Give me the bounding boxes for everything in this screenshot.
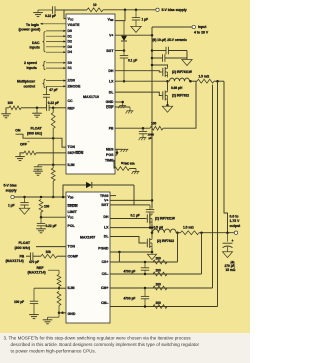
svg-text:D4: D4 — [68, 50, 73, 54]
svg-text:200: 200 — [156, 268, 162, 272]
ground 100 left (earth) — [1, 108, 11, 118]
svg-text:REF: REF — [68, 106, 76, 110]
resistor RTIME 62k — [114, 161, 135, 170]
wire DL gate drive — [115, 92, 161, 95]
junction switch node — [166, 80, 169, 83]
controller IC U2 MAX1957 body — [66, 192, 110, 323]
wire TRIG stub — [110, 195, 116, 197]
svg-text:LX: LX — [109, 80, 114, 84]
svg-text:(6) 10-μF, 25-V ceramic: (6) 10-μF, 25-V ceramic — [153, 38, 188, 42]
wire DL2 gate drive — [110, 237, 146, 244]
resistor 200 CM+ — [153, 282, 167, 290]
svg-text:DL: DL — [104, 235, 110, 239]
wire CS+ row — [110, 261, 178, 263]
junction ILIM node bottom — [58, 287, 61, 290]
capacitor 0.22uF bottom — [36, 217, 56, 233]
junction 4700pF lower top — [144, 287, 147, 290]
svg-text:SHDN: SHDN — [68, 204, 78, 208]
capacitor 100pF ILIM — [14, 288, 59, 318]
ground NEG/POS (hatch) — [117, 149, 128, 152]
svg-text:100: 100 — [8, 101, 14, 105]
svg-text:LX: LX — [104, 225, 109, 229]
caption background — [0, 333, 250, 363]
svg-text:Multiplexer: Multiplexer — [17, 80, 36, 84]
svg-text:SKP/SDN: SKP/SDN — [68, 151, 84, 155]
svg-text:(300 kHz): (300 kHz) — [27, 131, 42, 135]
svg-text:1 μF: 1 μF — [142, 18, 149, 22]
svg-text:described in this article. Boa: described in this article. Board designe… — [11, 342, 200, 347]
svg-text:1.5 mΩ: 1.5 mΩ — [199, 75, 210, 79]
svg-text:47 pF: 47 pF — [49, 88, 57, 92]
U2 left pin labels — [68, 195, 79, 316]
capacitor 1uF VDD bypass — [132, 10, 148, 22]
wire TIME pin down — [114, 160, 115, 168]
wire V+ pin IC2 — [110, 199, 152, 201]
capacitor 1uF bottom — [8, 197, 30, 214]
junction VDD tap — [124, 9, 127, 12]
svg-text:0.68 μH: 0.68 μH — [171, 86, 183, 90]
wire sense resistor to output bus — [214, 80, 224, 82]
wire Vin to Q1 drain — [152, 65, 168, 67]
svg-text:0.22 μF: 0.22 μF — [45, 14, 56, 18]
svg-text:FLOAT: FLOAT — [19, 241, 31, 245]
svg-text:output: output — [230, 224, 242, 228]
op-amp/controller IC U1 MAX1710 body — [66, 14, 115, 174]
svg-text:NEG: NEG — [106, 147, 114, 151]
resistor ILIM divider lower bottom — [57, 292, 61, 313]
svg-text:3. The MOSFETs for this step-d: 3. The MOSFETs for this step-down switch… — [4, 335, 192, 340]
ground IC2 GND — [43, 313, 59, 324]
svg-text:control: control — [24, 84, 36, 88]
node FLOAT 300kHz bottom — [15, 241, 67, 250]
wire LX pin to switch node — [115, 80, 168, 82]
svg-text:ILIM: ILIM — [68, 163, 75, 167]
capacitor 0.1uF bootstrap top — [120, 56, 137, 63]
svg-text:0.6 to: 0.6 to — [230, 214, 239, 218]
junction BST node — [123, 49, 126, 52]
resistor 10k COMP — [41, 250, 66, 258]
junction FB filter tap — [142, 127, 145, 130]
ground GND pin IC1 (hatch) — [118, 102, 126, 108]
ground output caps — [223, 252, 233, 258]
svg-text:FB: FB — [109, 126, 114, 130]
svg-text:(2) IRF7811W: (2) IRF7811W — [172, 70, 192, 74]
svg-text:ON: ON — [15, 128, 21, 132]
capacitor 470pF — [29, 252, 41, 264]
U1 right pin labels — [105, 18, 114, 163]
svg-text:15 mΩ: 15 mΩ — [226, 268, 236, 272]
svg-text:POL: POL — [68, 224, 76, 228]
ground input caps — [182, 51, 192, 66]
svg-text:(MAX1714): (MAX1714) — [6, 259, 24, 263]
svg-text:V+: V+ — [109, 33, 113, 37]
svg-text:REF: REF — [37, 266, 45, 270]
resistor 200 CM- — [153, 301, 167, 309]
junction V+ tap IC1 — [151, 34, 154, 37]
terminal input 4 to 28V — [192, 25, 209, 34]
resistor 10 ohm VCC filter — [87, 3, 103, 12]
svg-text:DL: DL — [109, 90, 115, 94]
svg-text:TIME: TIME — [105, 159, 114, 163]
junction LX node tap — [123, 80, 126, 83]
junction inductor-sense node bottom — [176, 231, 179, 234]
diode bootstrap bottom — [63, 182, 134, 197]
svg-text:S1: S1 — [68, 66, 72, 70]
capacitor 0.22uF REF in series — [37, 101, 59, 111]
svg-text:10: 10 — [93, 3, 97, 7]
svg-text:DH: DH — [103, 215, 109, 219]
wire sense bus B vertical — [217, 81, 219, 306]
svg-text:Z/S0: Z/S0 — [68, 79, 76, 83]
wire FB sense vertical from inductor node — [163, 81, 196, 128]
svg-text:CC: CC — [68, 99, 74, 103]
svg-text:CM–: CM– — [101, 301, 109, 305]
svg-text:CM+: CM+ — [101, 286, 109, 290]
junction V+ IC2 on Vin bus — [151, 199, 154, 202]
svg-text:LIMIT: LIMIT — [68, 210, 78, 214]
node REF MAX1714 — [28, 266, 60, 275]
inductor 0.68uH — [170, 78, 190, 90]
wire CM- row — [110, 306, 218, 308]
svg-text:200: 200 — [156, 282, 162, 286]
svg-text:(2) IRF7811W: (2) IRF7811W — [155, 217, 175, 221]
wire input to Vin bus — [152, 26, 192, 28]
wire DAC input arrows D0-D4 — [46, 30, 66, 54]
wire bootstrap cap to LX — [123, 58, 125, 81]
wire VCC node to resistor — [64, 9, 87, 11]
capacitor ILIM bypass — [33, 164, 66, 176]
svg-text:D0: D0 — [68, 29, 73, 33]
capacitor 4700pF lower — [124, 288, 150, 307]
wire PGND row — [110, 251, 152, 253]
svg-text:POS: POS — [106, 153, 114, 157]
junction output cap tap — [226, 231, 229, 234]
transistor Q4 (2) IRF7822 low-side bottom — [146, 238, 175, 249]
capacitor 0.1uF bootstrap bottom — [131, 205, 155, 228]
svg-text:200: 200 — [156, 256, 162, 260]
resistor 1.5 mOhm sense top — [191, 75, 215, 84]
ground OVP (hatch) — [126, 107, 134, 113]
resistor 200 CS- — [153, 268, 167, 276]
wire Q2 drain to switch node — [167, 81, 169, 90]
svg-text:FB: FB — [20, 254, 25, 258]
svg-text:S0: S0 — [68, 61, 72, 65]
node DAC inputs brace — [30, 32, 46, 52]
junction sense right — [216, 80, 219, 83]
resistor 100 FB — [150, 122, 163, 131]
svg-text:ZMODE: ZMODE — [68, 84, 81, 88]
svg-text:DH: DH — [108, 69, 114, 73]
svg-text:0.1 μF: 0.1 μF — [131, 214, 140, 218]
wire 5V bias rail — [103, 9, 156, 11]
svg-text:100: 100 — [151, 122, 157, 126]
svg-text:OVP: OVP — [106, 105, 114, 109]
inductor 0.5uH bottom — [153, 225, 177, 232]
svg-text:GND: GND — [106, 100, 114, 104]
wire 5V to VDD IC2 — [14, 196, 66, 198]
wire Q4 source to PGND row — [151, 249, 153, 253]
junction 1uF tap — [135, 9, 138, 12]
ground PGND — [147, 252, 156, 260]
caption text — [4, 335, 200, 353]
wire VDD pin to 5V rail — [115, 10, 125, 21]
resistor 200 CS+ ... note: row components — [153, 256, 167, 264]
wire DH2 gate drive — [110, 218, 146, 220]
capacitor input C-b — [152, 54, 187, 62]
node 2 speed inputs brace — [24, 61, 66, 70]
resistor 1.5 mOhm sense bottom — [181, 226, 200, 235]
capacitor output bank (4) 270uF 15mOhm — [223, 233, 236, 272]
svg-text:5-V bias: 5-V bias — [4, 184, 17, 188]
ground 1000pF (hatch) — [139, 134, 147, 140]
ground (earth) for 0.22uF VCC bypass — [33, 10, 43, 17]
svg-text:100 pF: 100 pF — [14, 300, 24, 304]
wire ILIM pin IC2 — [59, 287, 66, 289]
node To logic power good — [19, 23, 67, 32]
svg-text:to power modern high-performan: to power modern high-performance CPUs. — [11, 348, 96, 353]
wire diode to BST IC2 — [110, 185, 134, 205]
transistor Q3 (2) IRF7811W high-side bottom — [146, 213, 175, 224]
wire GND pin IC2 — [59, 312, 66, 314]
ground for 1uF — [131, 20, 141, 33]
wire Q2 source to ground — [167, 101, 169, 105]
wire sense bus A vertical — [212, 85, 214, 288]
svg-text:OFF: OFF — [20, 143, 27, 147]
svg-text:BST: BST — [106, 49, 114, 53]
svg-text:4 to 28 V: 4 to 28 V — [194, 31, 209, 35]
svg-text:CS–: CS– — [102, 272, 109, 276]
transistor Q2 (2) IRF7822 low-side — [161, 90, 189, 101]
svg-text:200: 200 — [156, 301, 162, 305]
svg-text:(2) IRF7822: (2) IRF7822 — [172, 94, 189, 98]
svg-text:supply: supply — [6, 188, 17, 192]
diode bootstrap top — [121, 21, 127, 41]
svg-text:TRIG: TRIG — [100, 194, 109, 198]
svg-text:D2: D2 — [68, 40, 73, 44]
wire FB pin to resistor — [115, 127, 150, 129]
svg-text:1 μF: 1 μF — [8, 204, 15, 208]
svg-text:To logic: To logic — [26, 23, 39, 27]
svg-text:GND: GND — [68, 312, 76, 316]
wire PGND drop to CS+ row — [118, 252, 120, 262]
wire Q3 source to switch node — [151, 224, 153, 233]
wire LX2 row — [110, 227, 152, 229]
wire NEG and POS pins joined — [115, 149, 118, 155]
capacitor 0.22uF VCC bypass — [45, 6, 56, 18]
capacitor 4700pF upper — [124, 262, 150, 274]
junction input cap 2 — [151, 57, 154, 60]
wire ground to capacitor — [38, 9, 53, 11]
wire BST pin — [115, 50, 124, 52]
node FB MAX1714 — [6, 254, 31, 263]
resistor ILIM divider vertical — [51, 108, 55, 198]
resistor ILIM divider upper bottom — [57, 270, 61, 288]
svg-text:Input: Input — [198, 25, 207, 29]
svg-text:1.5 mΩ: 1.5 mΩ — [183, 226, 194, 230]
wire OVP pin — [115, 106, 130, 108]
svg-text:VGATE: VGATE — [68, 23, 81, 27]
svg-text:1.75 V: 1.75 V — [230, 219, 241, 223]
svg-text:COMP: COMP — [68, 254, 79, 258]
svg-text:(300 kHz): (300 kHz) — [15, 246, 31, 250]
wire output bus vertical — [224, 81, 228, 233]
svg-text:pF: pF — [149, 136, 153, 140]
ground rail earth middle — [32, 108, 42, 117]
node multiplexer control brace — [17, 79, 66, 88]
svg-text:TON: TON — [68, 245, 76, 249]
svg-text:5-V bias supply: 5-V bias supply — [162, 8, 187, 12]
junction sense right bottom — [200, 231, 203, 234]
svg-text:(power good): (power good) — [19, 28, 41, 32]
svg-text:ILIM: ILIM — [68, 286, 75, 290]
svg-text:MAX1957: MAX1957 — [80, 236, 95, 240]
svg-text:10k: 10k — [46, 250, 52, 254]
svg-text:D1: D1 — [68, 34, 73, 38]
svg-text:4700 pF: 4700 pF — [124, 297, 136, 301]
capacitor input C-a — [152, 47, 187, 55]
terminal output 0.6 to 1.75V — [230, 214, 242, 234]
wire sense to output node — [199, 232, 234, 234]
svg-text:inputs: inputs — [27, 66, 37, 70]
svg-text:PGND: PGND — [98, 247, 109, 251]
svg-text:(2) IRF7822: (2) IRF7822 — [157, 239, 174, 243]
ground RTIME (hatch) — [130, 169, 140, 175]
wire CS+ riser to inductor node — [177, 233, 179, 262]
svg-text:TON: TON — [68, 145, 76, 149]
wire CS- row — [110, 273, 202, 275]
wire BST to bootstrap cap — [134, 204, 150, 206]
wire CM+ row — [110, 287, 213, 289]
svg-text:CS+: CS+ — [102, 260, 109, 264]
ground Q2 source — [162, 105, 172, 112]
svg-text:V+: V+ — [104, 199, 108, 203]
svg-text:D3: D3 — [68, 45, 73, 49]
wire Q4 drain to switch node — [151, 233, 153, 238]
transistor Q1 (2) IRF7811W high-side — [161, 67, 192, 78]
terminal 5-V bias supply — [156, 8, 187, 12]
junction REF node — [52, 107, 55, 110]
terminal 5-V bias supply lower — [4, 184, 17, 199]
wire CS- riser to sense right — [201, 233, 203, 274]
capacitor 1000pF FB filter — [139, 128, 155, 140]
resistor SKP/SDN pulldown — [15, 151, 66, 161]
svg-text:0.1 μF: 0.1 μF — [128, 58, 137, 62]
resistor 100 VCC filter bottom — [39, 200, 66, 219]
wire Vin bus vertical — [151, 27, 153, 209]
wire V+ pin IC1 — [115, 34, 152, 36]
junction GND node bottom — [58, 312, 61, 315]
resistor 100 left — [8, 101, 38, 110]
svg-text:2 speed: 2 speed — [24, 61, 37, 65]
schematic yellow background — [0, 0, 250, 333]
svg-text:DAC: DAC — [32, 41, 40, 45]
wire capacitor to VCC pin — [55, 10, 66, 19]
wire REF pin — [53, 107, 66, 109]
svg-text:100: 100 — [44, 205, 50, 209]
junction inductor-sense node — [189, 80, 192, 83]
svg-text:470 pF: 470 pF — [29, 260, 39, 264]
U1 left pin labels — [68, 17, 84, 167]
svg-text:FLOAT: FLOAT — [31, 127, 43, 131]
junction input cap 1 — [151, 49, 154, 52]
svg-text:+: + — [232, 239, 234, 243]
svg-text:(MAX1714): (MAX1714) — [28, 271, 46, 275]
svg-text:0.22 μF: 0.22 μF — [46, 224, 57, 228]
wire GND pin IC1 — [115, 101, 123, 103]
svg-text:BST: BST — [101, 203, 109, 207]
junction ground rail — [36, 107, 39, 110]
svg-text:inputs: inputs — [30, 46, 40, 50]
capacitor 47pF on ZMODE/CC line — [43, 86, 58, 108]
svg-text:MAX1710: MAX1710 — [83, 95, 99, 99]
wire DH gate drive — [115, 71, 161, 72]
svg-text:4700 pF: 4700 pF — [124, 270, 136, 274]
node ON/OFF switch and FLOAT 300kHz — [15, 127, 66, 148]
U2 right pin labels — [98, 194, 109, 305]
